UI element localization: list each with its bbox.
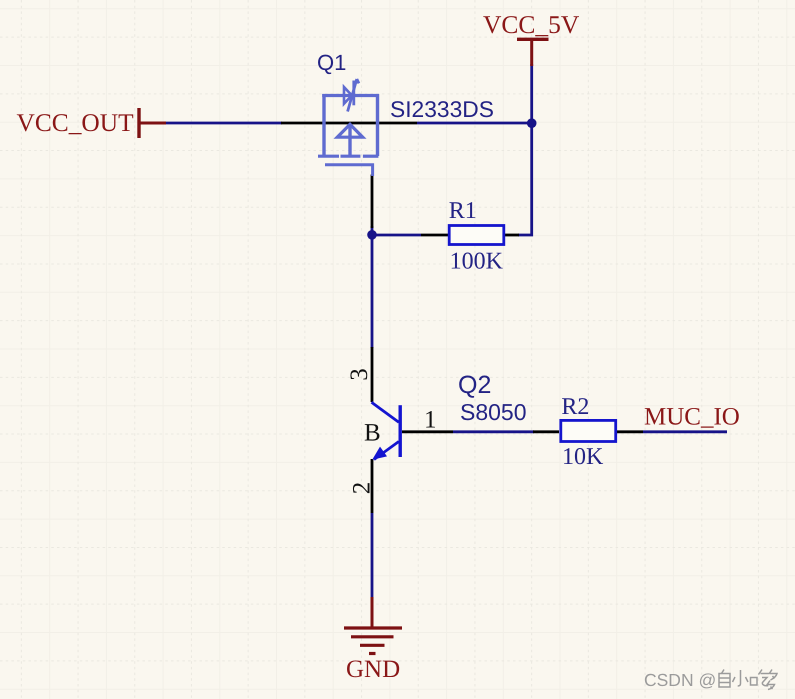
pin R2 left bbox=[533, 430, 559, 433]
node junction at gate/R1 bbox=[367, 230, 377, 240]
svg-text:S8050: S8050 bbox=[460, 399, 527, 425]
ground bbox=[344, 628, 402, 654]
wire node to R1 left bbox=[372, 234, 421, 237]
pin R1 right bbox=[504, 234, 519, 237]
pin Q2 emitter bbox=[371, 459, 374, 513]
pin R2 right bbox=[617, 430, 643, 433]
node junction at VCC bbox=[527, 118, 537, 128]
transistor Q1 bbox=[318, 79, 379, 176]
svg-text:Q2: Q2 bbox=[458, 371, 491, 399]
svg-text:VCC_OUT: VCC_OUT bbox=[17, 109, 135, 137]
pin Q2 collector bbox=[371, 347, 374, 402]
svg-text:10K: 10K bbox=[562, 444, 604, 470]
svg-text:2: 2 bbox=[349, 482, 376, 495]
wire junction to R1 right elbow bbox=[518, 123, 532, 235]
svg-text:3: 3 bbox=[346, 368, 373, 381]
power VCC_5V bar bbox=[517, 38, 549, 41]
svg-text:GND: GND bbox=[346, 656, 400, 683]
svg-text:MUC_IO: MUC_IO bbox=[644, 404, 740, 431]
svg-text:CSDN @: CSDN @ bbox=[644, 670, 716, 690]
pin R1 left bbox=[421, 234, 449, 237]
pin Q2 base bbox=[402, 430, 453, 433]
wire emitter to GND bbox=[371, 513, 374, 598]
wire R2 to MUC_IO bbox=[643, 430, 727, 433]
svg-text:R2: R2 bbox=[561, 394, 589, 420]
svg-text:100K: 100K bbox=[450, 249, 504, 275]
port VCC_OUT stub bbox=[140, 122, 166, 125]
port VCC_OUT tick bbox=[137, 108, 140, 138]
wire VCC_OUT to Q1 bbox=[165, 122, 282, 125]
wire VCC_5V vertical bbox=[530, 64, 533, 123]
wire Q1 drain-source black line bbox=[281, 122, 417, 125]
power VCC_5V stub bbox=[530, 39, 533, 66]
resistor R2 bbox=[561, 420, 616, 441]
transistor Q2 bbox=[372, 402, 401, 460]
svg-text:R1: R1 bbox=[449, 198, 477, 224]
resistor R1 bbox=[449, 226, 504, 245]
ground stub bbox=[371, 597, 374, 628]
wire Q2 base to R2 bbox=[453, 430, 534, 433]
svg-text:Q1: Q1 bbox=[317, 50, 346, 75]
wire Q1 gate to node bbox=[371, 226, 374, 348]
pin Q1 gate black bbox=[371, 175, 374, 229]
svg-text:SI2333DS: SI2333DS bbox=[390, 96, 494, 122]
wire Q1 to VCC junction bbox=[417, 122, 532, 125]
svg-text:1: 1 bbox=[424, 406, 437, 433]
svg-text:B: B bbox=[364, 420, 381, 447]
svg-text:VCC_5V: VCC_5V bbox=[483, 10, 580, 39]
